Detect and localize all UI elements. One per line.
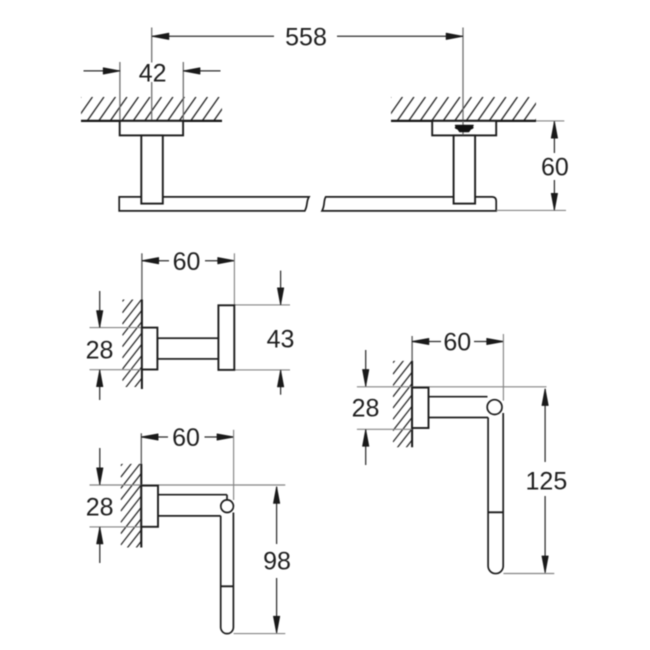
svg-text:28: 28 [86,493,114,521]
svg-text:42: 42 [139,60,167,88]
svg-text:60: 60 [541,154,569,182]
svg-text:60: 60 [443,329,471,357]
svg-text:98: 98 [263,548,291,576]
svg-text:60: 60 [173,248,201,276]
svg-text:28: 28 [352,394,380,422]
svg-text:28: 28 [86,337,114,365]
svg-text:125: 125 [526,468,568,496]
svg-text:43: 43 [267,326,295,354]
svg-text:60: 60 [172,424,200,452]
svg-text:558: 558 [285,23,327,51]
